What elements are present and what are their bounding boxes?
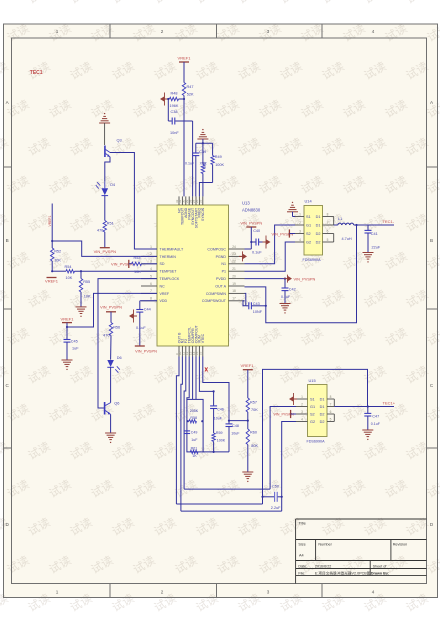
svg-text:TEMPLOCK: TEMPLOCK (160, 277, 180, 281)
svg-text:PVDD: PVDD (216, 277, 226, 281)
power port VREF1 left (45, 278, 59, 284)
svg-text:1: 1 (56, 590, 59, 595)
svg-text:D6: D6 (117, 356, 122, 360)
svg-text:4: 4 (301, 417, 303, 421)
svg-text:Sheet of: Sheet of (373, 565, 388, 569)
wire U15 G2 net (281, 422, 296, 512)
svg-text:1: 1 (150, 245, 152, 249)
svg-text:VIN_PVSPN: VIN_PVSPN (135, 349, 157, 354)
U15 designator label (307, 378, 326, 444)
capacitor C38 (167, 98, 192, 135)
wire PVDD net (245, 278, 287, 280)
wire U15 G1 net (270, 407, 296, 490)
svg-text:0.1uF: 0.1uF (252, 251, 262, 255)
inductor L1 (334, 217, 394, 241)
svg-text:52K: 52K (187, 93, 194, 97)
wire C38 to pin SYNCOUT (192, 121, 194, 196)
svg-text:G2: G2 (310, 420, 315, 424)
wire box bottom to pin FREQ (199, 183, 212, 197)
transistor Q3 (105, 138, 122, 158)
wire cluster box (187, 399, 203, 452)
no-connect arrow at U15 S1 (289, 393, 297, 405)
svg-text:0.1uF: 0.1uF (185, 162, 195, 166)
svg-text:Q6: Q6 (114, 401, 119, 406)
svg-text:U15: U15 (309, 378, 316, 383)
capacitor C40 (250, 229, 262, 254)
svg-text:2: 2 (299, 221, 301, 225)
wire C48 to R57 junction (229, 420, 249, 422)
svg-text:25: 25 (199, 199, 203, 203)
svg-text:18: 18 (232, 289, 236, 293)
capacitor C50 (261, 485, 281, 510)
svg-text:VREF1: VREF1 (178, 56, 192, 61)
wire VREF pin net (67, 293, 157, 327)
svg-text:G1: G1 (310, 405, 315, 409)
wire OUT A to TEC1- node (245, 225, 357, 323)
svg-text:G1: G1 (306, 224, 311, 228)
mosfet U15 body (308, 385, 328, 437)
svg-text:10NF: 10NF (253, 310, 263, 314)
resistor R54 (65, 265, 75, 280)
wire R56 to D6 (110, 336, 112, 360)
svg-text:C40: C40 (253, 229, 260, 233)
svg-text:R59: R59 (216, 431, 223, 435)
transistor Q6 (105, 401, 120, 415)
ground below C45 (62, 360, 73, 370)
svg-text:P1: P1 (222, 270, 226, 274)
ground below C42 (280, 304, 291, 314)
capacitor C46 (210, 391, 224, 433)
wire COMPFB pin drop (192, 357, 194, 400)
wire COMPSWOUT to C43 (243, 301, 246, 306)
wire OUT B pin drop (176, 357, 179, 505)
capacitor C41 (365, 225, 381, 253)
resistor R57 (246, 398, 258, 429)
svg-text:D1: D1 (320, 405, 325, 409)
svg-text:R55: R55 (83, 280, 90, 284)
power port VIN_PVSPN below C44 (135, 346, 157, 354)
svg-text:R58: R58 (190, 416, 197, 420)
capacitor C43 (246, 302, 266, 314)
U14 left pins (295, 212, 304, 242)
svg-text:3: 3 (301, 410, 303, 414)
svg-text:Revision: Revision (393, 543, 408, 547)
power port VREF1 top (178, 56, 192, 63)
U13 designator label (242, 201, 261, 213)
resistor R55 (79, 271, 91, 307)
svg-text:5: 5 (330, 417, 332, 421)
svg-text:Size: Size (298, 543, 305, 547)
power port VIN_PVSPN at U15 S2 (274, 410, 297, 418)
U13 bottom pins (175, 324, 205, 356)
resistor R56 (103, 323, 120, 338)
ground at U14 S1 (287, 202, 298, 217)
U15 pin names (310, 398, 325, 425)
wire vertical left net (51, 204, 53, 249)
svg-text:VREF1: VREF1 (61, 316, 75, 321)
svg-text:196K: 196K (170, 104, 179, 108)
svg-text:E:项目文档脉冲激光器V2.0PCB图: E:项目文档脉冲激光器V2.0PCB图 (315, 570, 371, 575)
resistor R53 (132, 256, 158, 274)
svg-text:VTEC: VTEC (201, 333, 205, 343)
U13 left pins 1-8 (141, 245, 184, 303)
svg-text:4: 4 (299, 238, 301, 242)
svg-text:R51: R51 (107, 222, 114, 226)
wire N1 to U14 G1 (245, 225, 296, 264)
svg-text:R61: R61 (191, 447, 198, 451)
svg-text:S1: S1 (310, 398, 315, 402)
wire OUT B riser net (263, 369, 368, 504)
svg-text:4: 4 (150, 267, 152, 271)
capacitor C45 (64, 326, 80, 360)
wire Q3 collector to right (110, 153, 157, 250)
svg-text:C47: C47 (372, 415, 379, 419)
svg-text:4: 4 (372, 29, 375, 34)
wire VREF1 to R47 (183, 62, 185, 83)
svg-text:L1: L1 (338, 217, 342, 221)
no-connect arrow left of R48 (160, 93, 168, 106)
wire TEMPCTL pin drop (187, 357, 189, 400)
svg-text:R47: R47 (187, 85, 194, 89)
svg-text:24: 24 (232, 245, 236, 249)
svg-text:D2: D2 (316, 232, 321, 236)
svg-text:2.2uF: 2.2uF (271, 506, 281, 510)
svg-text:C50: C50 (272, 485, 279, 489)
no-connect arrow at PGND pin (239, 251, 247, 261)
led D6 (107, 356, 121, 373)
svg-text:10uF: 10uF (231, 432, 240, 436)
ground below Q6 (105, 433, 116, 443)
capacitor C44 at VDD pin (136, 301, 157, 346)
svg-text:C42: C42 (289, 288, 296, 292)
power port VIN_PVSPN above R56 (100, 304, 122, 322)
svg-text:2: 2 (161, 29, 164, 34)
svg-text:70K: 70K (251, 408, 258, 412)
svg-text:10K: 10K (84, 295, 91, 299)
svg-text:Date:: Date: (298, 565, 307, 569)
power port VIN_PVSPN below R51 (94, 248, 117, 254)
op-amp U13 body (157, 205, 229, 346)
svg-text:D4: D4 (110, 183, 115, 187)
svg-text:5: 5 (150, 274, 152, 278)
svg-text:21: 21 (232, 267, 236, 271)
power arrow VIN_PVSPN at PVDD (284, 275, 316, 283)
svg-text:COMPSWOUT: COMPSWOUT (202, 299, 227, 303)
capacitor C39 (185, 143, 207, 196)
svg-text:COMPSWIN: COMPSWIN (206, 292, 227, 296)
svg-text:R54: R54 (65, 265, 72, 269)
svg-text:D1: D1 (320, 398, 325, 402)
svg-text:8: 8 (330, 395, 332, 399)
svg-text:S2: S2 (310, 413, 315, 417)
svg-text:10uF: 10uF (214, 417, 223, 421)
svg-text:2016/6/22: 2016/6/22 (315, 565, 331, 569)
svg-text:2: 2 (150, 252, 152, 256)
wire COMPOUT pin drop (195, 357, 197, 400)
resistor R52 (51, 248, 62, 271)
svg-text:4.7uH: 4.7uH (342, 237, 352, 241)
U15 right pins (327, 395, 334, 422)
wire P1 to U14 G2 (245, 242, 296, 271)
wire VLIM pin drop (199, 357, 214, 393)
capacitor C48 (226, 420, 241, 452)
wire bottom rail B (176, 503, 262, 505)
svg-text:B: B (6, 238, 9, 243)
wire TEMPLOCK to Q6 base (98, 279, 157, 408)
U13 top pins (175, 196, 205, 228)
svg-text:S1: S1 (306, 215, 311, 219)
wire to pin THERMIN (52, 241, 157, 256)
wire C40 to COMPOSC pin (245, 242, 252, 249)
ground below R55 (76, 307, 87, 317)
svg-text:TEC1: TEC1 (30, 70, 43, 76)
svg-text:TEC1+: TEC1+ (383, 400, 396, 405)
svg-text:VREF1: VREF1 (241, 363, 255, 368)
svg-text:D2: D2 (316, 241, 321, 245)
svg-text:1uF: 1uF (72, 347, 79, 351)
no-ERC cross at VTEC (205, 367, 208, 371)
net label TEC1+ (383, 400, 396, 405)
svg-text:R57: R57 (250, 401, 257, 405)
wire cluster bottom rail (203, 451, 229, 453)
wire COMPSWIN to C43 (245, 293, 246, 305)
svg-text:VIN_PVSPN: VIN_PVSPN (94, 249, 117, 254)
svg-text:17: 17 (232, 297, 236, 301)
svg-text:ADN8830: ADN8830 (242, 208, 261, 213)
wire R47 down to pin PHASE (183, 96, 185, 197)
svg-text:19: 19 (232, 282, 236, 286)
U14 designator label (303, 199, 322, 263)
wire Q3 emitter down (105, 157, 110, 182)
U14 right pins (323, 212, 334, 242)
svg-text:Drawn By:: Drawn By: (371, 571, 389, 575)
svg-text:D1: D1 (316, 224, 321, 228)
svg-text:22uF: 22uF (372, 246, 381, 250)
svg-text:7: 7 (330, 402, 332, 406)
svg-text:SD: SD (160, 262, 165, 266)
sheet title TEC1 (30, 70, 43, 76)
capacitor C47 (364, 407, 380, 431)
svg-text:R48: R48 (171, 92, 178, 96)
svg-text:VREF1: VREF1 (45, 279, 59, 284)
svg-text:6: 6 (327, 229, 329, 233)
svg-text:VIN_PVSPN: VIN_PVSPN (100, 304, 122, 309)
svg-text:C46: C46 (217, 408, 224, 412)
svg-text:C41: C41 (371, 232, 378, 236)
resistor R50 (201, 143, 207, 196)
svg-text:3: 3 (267, 29, 270, 34)
svg-text:R60: R60 (250, 431, 257, 435)
svg-text:VIN_PVSPN: VIN_PVSPN (240, 221, 262, 226)
svg-text:23: 23 (232, 252, 236, 256)
svg-text:10K: 10K (134, 270, 141, 274)
svg-text:PGND: PGND (216, 255, 227, 259)
svg-text:D2: D2 (320, 420, 325, 424)
svg-text:0.1uF: 0.1uF (281, 295, 291, 299)
capacitor C49 (184, 431, 199, 443)
led D4 (96, 182, 115, 196)
svg-text:COMPOSC: COMPOSC (207, 247, 226, 251)
svg-text:VREF1: VREF1 (48, 215, 52, 226)
title block (296, 519, 427, 584)
svg-text:5: 5 (327, 238, 329, 242)
resistor R47 (182, 83, 194, 97)
U14 pin names (306, 215, 321, 245)
wire top box rail (196, 142, 213, 144)
svg-text:R52: R52 (54, 250, 61, 254)
svg-text:C38: C38 (171, 110, 178, 114)
svg-text:3: 3 (299, 229, 301, 233)
wire P2 pin drop (184, 357, 186, 490)
svg-text:S2: S2 (306, 232, 311, 236)
wire N2 pin drop (181, 357, 183, 512)
mosfet U14 body (304, 206, 323, 256)
svg-text:20: 20 (232, 274, 236, 278)
svg-text:0.1uF: 0.1uF (136, 326, 146, 330)
svg-text:3: 3 (150, 260, 152, 264)
svg-text:10K: 10K (66, 276, 73, 280)
svg-text:470: 470 (103, 334, 109, 338)
power port VIN_PVSPN above C40 (240, 221, 262, 243)
wire TEMPSET net (51, 270, 157, 272)
svg-text:100K: 100K (217, 438, 226, 442)
svg-text:THERMIN: THERMIN (160, 255, 177, 259)
U15 left pins (296, 395, 308, 422)
no-connect arrow right of C40 (259, 236, 271, 249)
svg-text:D2: D2 (320, 413, 325, 417)
svg-text:VIN_PVSPN: VIN_PVSPN (294, 276, 316, 281)
svg-text:C43: C43 (253, 302, 260, 306)
svg-text:2: 2 (161, 590, 164, 595)
svg-text:6: 6 (330, 410, 332, 414)
svg-text:8: 8 (327, 212, 329, 216)
net label VREF1 vertical (48, 215, 52, 226)
capacitor C42 (281, 279, 296, 304)
resistor R59 (212, 431, 226, 452)
wire D4 to R51 (104, 196, 106, 221)
resistor R49 (211, 143, 225, 182)
power port VREF1 mid (61, 316, 75, 327)
svg-text:NC: NC (160, 284, 166, 288)
svg-text:C48: C48 (232, 424, 239, 428)
svg-text:C49: C49 (191, 431, 198, 435)
svg-text:80K: 80K (251, 444, 258, 448)
svg-text:N1: N1 (221, 262, 226, 266)
svg-text:A4: A4 (299, 554, 304, 558)
svg-text:TEMPSET: TEMPSET (160, 270, 178, 274)
svg-text:VREF: VREF (160, 292, 170, 296)
power port VIN_PVSPN at SD pin (111, 260, 133, 268)
net label TEC1- (383, 219, 395, 224)
power port VIN_PVSPN at U14 S2 (272, 229, 296, 237)
svg-text:100K: 100K (215, 163, 224, 167)
wire TEC1+ rail (334, 405, 394, 407)
wire R51 to power bar (104, 232, 106, 248)
resistor R58 (187, 409, 204, 423)
svg-text:R49: R49 (215, 155, 222, 159)
svg-text:1: 1 (301, 395, 303, 399)
svg-text:G2: G2 (306, 241, 311, 245)
svg-text:U14: U14 (305, 199, 313, 204)
svg-text:8: 8 (150, 297, 152, 301)
svg-text:0.1uF: 0.1uF (371, 422, 381, 426)
wire VTEC pin drop (203, 357, 229, 421)
svg-text:OUT A: OUT A (215, 284, 226, 288)
svg-text:2: 2 (301, 402, 303, 406)
svg-text:22: 22 (232, 260, 236, 264)
resistor R48 (168, 92, 185, 109)
svg-text:VDD: VDD (160, 299, 168, 303)
ground below C41 (363, 253, 374, 263)
resistor R51 (97, 221, 114, 233)
svg-text:1: 1 (299, 212, 301, 216)
svg-text:FDS6990A: FDS6990A (307, 440, 326, 444)
svg-text:File:: File: (298, 571, 305, 575)
svg-text:TEC1-: TEC1- (383, 219, 395, 224)
svg-text:U13: U13 (242, 201, 250, 206)
wire Q6 emitter to ground (110, 414, 112, 433)
svg-text:470: 470 (97, 229, 103, 233)
wire bottom rail A (184, 488, 270, 490)
wire bottom rail C (181, 510, 282, 512)
ground below R60 (242, 472, 253, 482)
no-connect arrow at C44 (129, 310, 137, 323)
svg-text:1: 1 (56, 29, 59, 34)
svg-text:C44: C44 (144, 308, 151, 312)
svg-text:7: 7 (327, 221, 329, 225)
U13 right pins 24-17 (202, 245, 245, 303)
ground above Q3 (99, 113, 110, 145)
svg-text:4: 4 (372, 590, 375, 595)
resistor R60 (246, 429, 258, 472)
svg-text:FDS6990A: FDS6990A (303, 258, 322, 262)
svg-text:THERMFAULT: THERMFAULT (160, 247, 184, 251)
svg-text:10K: 10K (54, 259, 61, 263)
power port VREF1 at R57 (241, 363, 255, 398)
svg-text:1K: 1K (192, 454, 197, 458)
svg-text:16: 16 (199, 351, 203, 355)
resistor R61 (190, 447, 198, 458)
svg-text:Number: Number (318, 543, 332, 547)
svg-text:10nF: 10nF (170, 131, 179, 135)
svg-text:R56: R56 (113, 326, 120, 330)
svg-text:C45: C45 (71, 340, 78, 344)
junction TEC1- node (355, 224, 357, 226)
svg-text:B: B (430, 238, 433, 243)
svg-text:6: 6 (150, 282, 152, 286)
svg-text:D1: D1 (316, 215, 321, 219)
wire D6 to Q6 (110, 367, 112, 402)
svg-text:Title: Title (298, 521, 306, 526)
svg-text:205K: 205K (190, 409, 199, 413)
svg-text:Q3: Q3 (117, 138, 122, 143)
ground above C39 box (197, 129, 208, 143)
svg-text:7: 7 (150, 289, 152, 293)
svg-text:R50: R50 (203, 162, 207, 168)
svg-text:R53: R53 (134, 256, 141, 260)
svg-text:3: 3 (267, 590, 270, 595)
svg-text:SYNCIN: SYNCIN (201, 207, 205, 221)
svg-text:1uF: 1uF (191, 438, 198, 442)
ground below C47 (362, 430, 373, 440)
